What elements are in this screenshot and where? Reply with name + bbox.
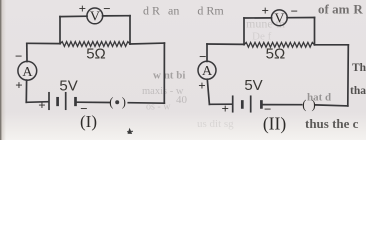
wire: left vertical above ammeter (206, 44, 208, 61)
battery B1 plate short 2 (74, 98, 77, 105)
svg-text:De f: De f (252, 31, 272, 43)
svg-text:+: + (198, 78, 205, 93)
svg-text:A: A (202, 64, 213, 79)
wire: V-loop left vertical (243, 18, 245, 44)
scan left edge dark line (0, 0, 1, 140)
wire: key to bottom-right corner (128, 102, 164, 105)
wire: right vertical (163, 43, 165, 103)
wire: voltmeter top rail right segment (103, 15, 130, 17)
wire: voltmeter top rail right segment (287, 17, 314, 19)
ammeter A2 circle (198, 61, 216, 79)
svg-text:thus the c: thus the c (305, 116, 359, 131)
scan left edge shading (0, 0, 6, 140)
wire: resistor rail left segment (27, 42, 60, 44)
svg-text:5V: 5V (59, 77, 77, 94)
wire: voltmeter top rail left segment (244, 17, 272, 19)
svg-text:−: − (291, 4, 298, 19)
wire: resistor rail right segment (130, 42, 164, 45)
svg-text:+: + (15, 77, 22, 92)
svg-text:−: − (15, 48, 22, 63)
svg-text:of amR: of amR (318, 2, 363, 17)
paper background (0, 0, 366, 140)
wire: key to bottom-right corner (316, 105, 348, 106)
svg-text:5Ω: 5Ω (266, 46, 286, 63)
svg-text:w nt bi: w nt bi (153, 70, 185, 82)
svg-text:5V: 5V (244, 77, 262, 94)
wire: resistor rail left segment (207, 43, 244, 45)
svg-text:(: ( (109, 95, 113, 109)
svg-text:(II): (II) (263, 114, 286, 134)
wire: bottom rail to battery (209, 103, 231, 105)
battery B1 plate short 1 (56, 98, 59, 105)
svg-text:The: The (352, 62, 366, 74)
wire: right vertical (347, 45, 350, 106)
wire: V-loop right vertical (314, 18, 316, 45)
wire: bottom rail to battery (26, 101, 48, 104)
small ink blot bottom center (127, 129, 133, 133)
battery B1 plate long 2 (65, 93, 67, 109)
svg-text:A: A (22, 65, 33, 80)
svg-text:−: − (199, 49, 206, 64)
battery B2 plate short 1 (241, 102, 244, 108)
svg-text:+: + (221, 101, 228, 116)
wire: resistor rail right segment (315, 44, 349, 46)
svg-text:+: + (261, 3, 268, 18)
svg-text:40: 40 (176, 94, 188, 106)
svg-text:5Ω: 5Ω (86, 45, 106, 62)
battery B2 plate short 2 (260, 102, 263, 108)
wire: left vertical below ammeter (207, 79, 209, 104)
resistor R2 zigzag (5 ohm) (244, 42, 315, 47)
voltmeter V2 circle (271, 10, 287, 26)
svg-text:(: ( (302, 98, 306, 112)
svg-text:+: + (38, 98, 45, 113)
wire: V-loop right vertical (129, 16, 131, 44)
key K1 dot (115, 100, 119, 104)
svg-text:us dit sg: us dit sg (197, 118, 234, 130)
svg-text:): ) (312, 98, 316, 112)
ammeter A1 circle (18, 61, 37, 80)
svg-text:+: + (79, 1, 86, 16)
svg-text:(I): (I) (80, 112, 97, 131)
battery B1 plate long 1 (48, 93, 50, 109)
svg-text:that d: that d (350, 85, 366, 97)
voltmeter V1 circle (87, 8, 103, 24)
svg-text:−: − (103, 1, 110, 16)
battery B2 plate long 2 (250, 96, 252, 111)
wire: V-loop left vertical (59, 17, 61, 44)
wire: battery to key (263, 104, 302, 106)
battery B2 plate long 1 (232, 96, 234, 111)
wire: left vertical below ammeter (25, 80, 27, 102)
wire: battery to key (77, 101, 109, 103)
wire: left vertical above ammeter (26, 43, 28, 61)
wire: voltmeter top rail left segment (60, 15, 87, 17)
svg-text:V: V (274, 12, 284, 27)
svg-text:V: V (90, 10, 100, 25)
svg-text:): ) (122, 95, 126, 109)
resistor R1 zigzag (5 ohm) (60, 42, 130, 47)
